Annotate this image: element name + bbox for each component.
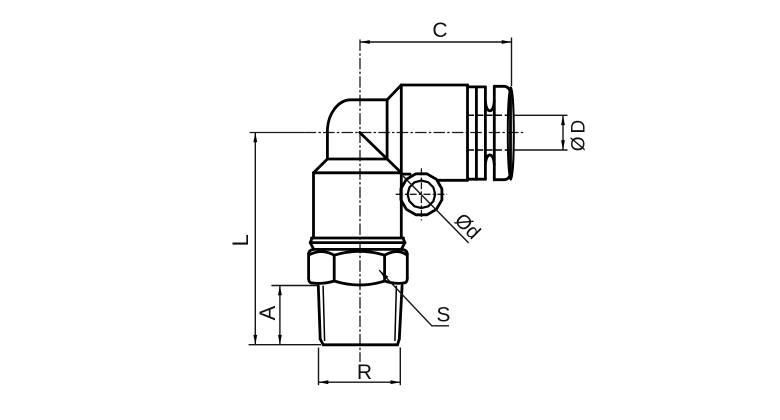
svg-text:S: S bbox=[436, 304, 450, 327]
svg-text:R: R bbox=[357, 361, 372, 384]
svg-text:ØD: ØD bbox=[568, 117, 589, 152]
svg-text:A: A bbox=[255, 305, 280, 320]
svg-text:C: C bbox=[432, 19, 447, 42]
svg-text:L: L bbox=[228, 234, 253, 246]
